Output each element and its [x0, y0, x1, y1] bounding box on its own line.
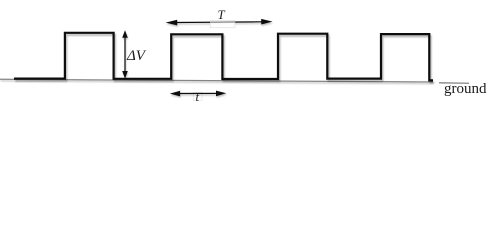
pulse-width arrow t (double-headed, under pulse 2)	[170, 91, 227, 97]
svg-text:ΔV: ΔV	[126, 48, 147, 64]
period arrow T (double-headed)	[166, 19, 273, 26]
ground stub line (right of trace end, above "ground")	[439, 82, 469, 85]
svg-text:t: t	[196, 90, 200, 104]
svg-text:ground: ground	[444, 81, 487, 97]
arrow line showing through label box	[210, 21, 235, 23]
square wave trace (4 pulses)	[14, 33, 433, 81]
amplitude arrow dV (vertical double-headed)	[122, 30, 128, 78]
white label box over T arrow	[210, 20, 235, 27]
white label box for t	[193, 92, 202, 100]
svg-text:T: T	[217, 8, 225, 22]
ground reference line (thin grey, slight downward slope)	[0, 79, 433, 82]
